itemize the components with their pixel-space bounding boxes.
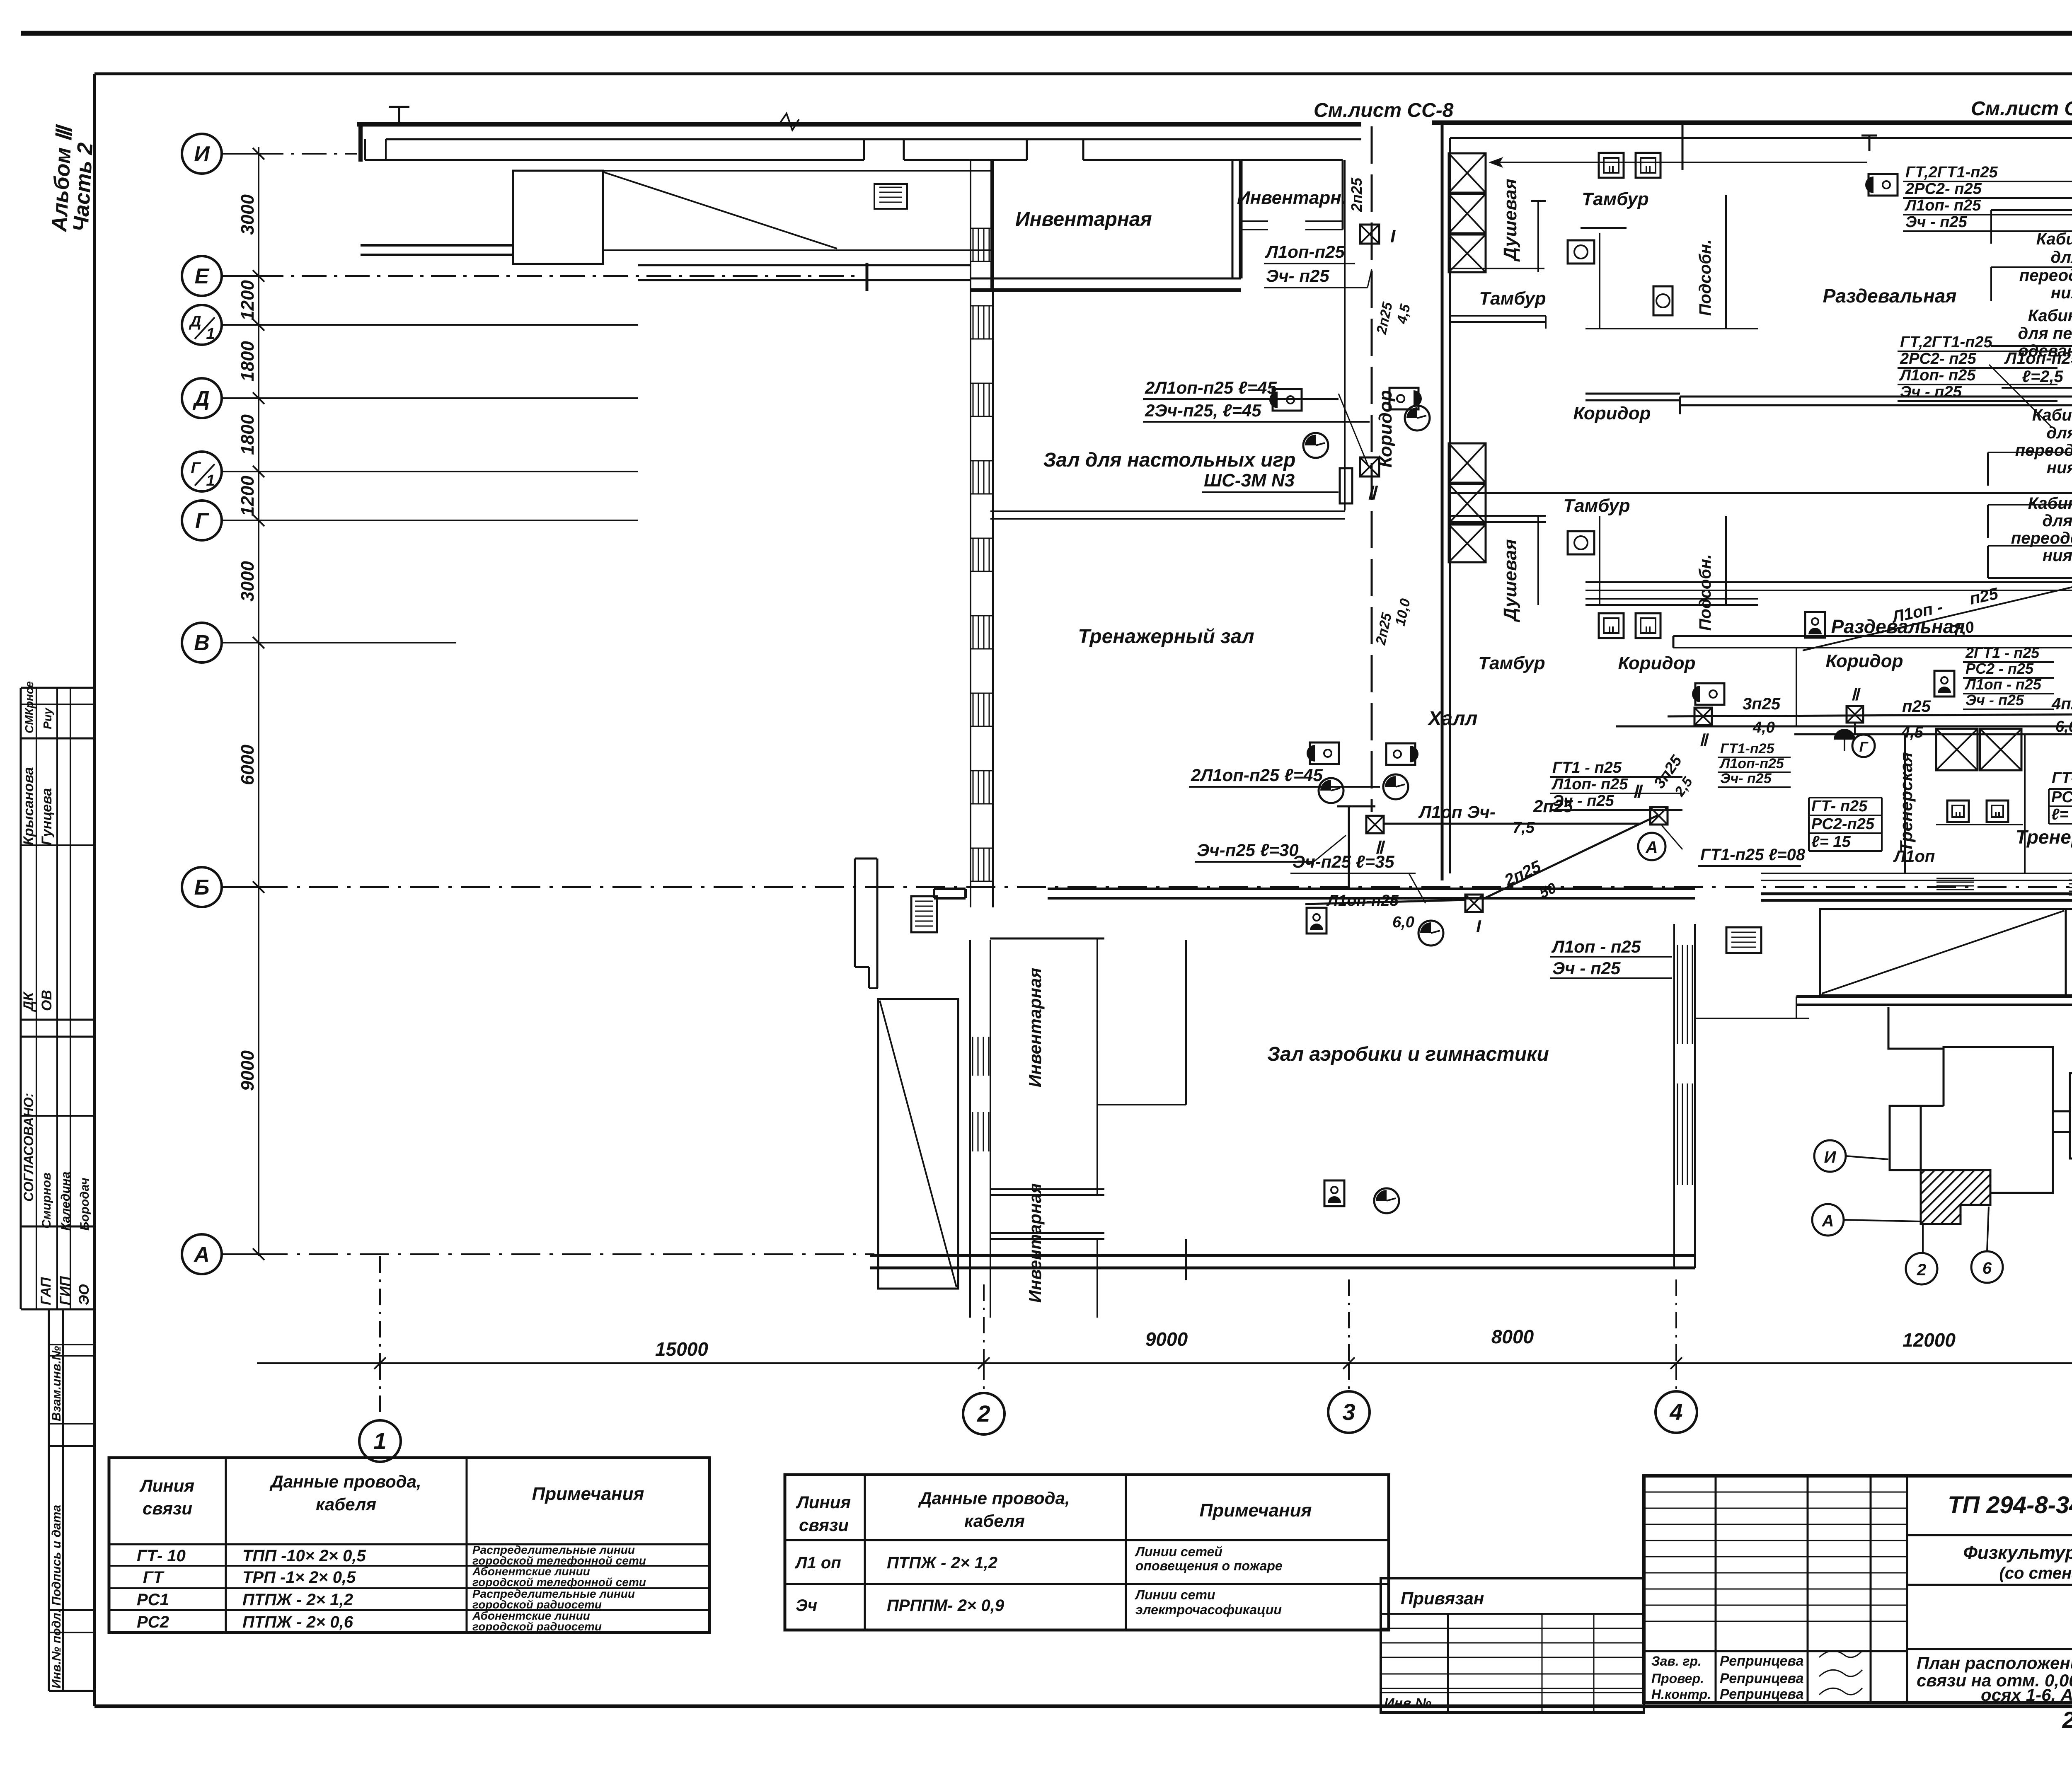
svg-text:Линия: Линия xyxy=(139,1476,194,1495)
svg-text:ПТПЖ - 2× 1,2: ПТПЖ - 2× 1,2 xyxy=(887,1554,997,1572)
svg-text:2Л1оп-п25 ℓ=45: 2Л1оп-п25 ℓ=45 xyxy=(1191,765,1323,785)
top-left wall extension segments xyxy=(638,264,971,266)
window hatch east xyxy=(1677,945,1678,1044)
svg-text:1: 1 xyxy=(206,472,215,489)
hatched window symbol lower-left xyxy=(911,896,937,932)
svg-text:Инвентарн.: Инвентарн. xyxy=(1237,188,1346,208)
axis circle 2 xyxy=(963,1393,1005,1434)
svg-text:Л1оп-п25: Л1оп-п25 xyxy=(1719,756,1784,771)
speaker corridor2 mid xyxy=(1934,671,1954,697)
svg-text:2РС2- п25: 2РС2- п25 xyxy=(1900,350,1977,368)
svg-text:ГТ1 - п25: ГТ1 - п25 xyxy=(1552,759,1622,776)
svg-text:Коридор: Коридор xyxy=(1826,651,1903,671)
svg-text:Эч- п25: Эч- п25 xyxy=(1266,266,1329,285)
sheet top border line xyxy=(21,31,2072,36)
window hatch xyxy=(973,306,974,339)
svg-text:Линии сети: Линии сети xyxy=(1135,1587,1215,1602)
svg-text:ℓ= 15: ℓ= 15 xyxy=(2051,806,2072,823)
axis circle 1 xyxy=(359,1420,401,1462)
axis circle 3 xyxy=(1328,1391,1370,1433)
title block left grid xyxy=(1715,1476,1717,1703)
svg-text:Эч - п25: Эч - п25 xyxy=(1905,213,1968,231)
axis circle 4 xyxy=(1656,1391,1697,1433)
svg-text:Репринцева: Репринцева xyxy=(1720,1686,1804,1702)
speaker at corridor2 left xyxy=(1695,683,1724,705)
svg-text:ПРППМ- 2× 0,9: ПРППМ- 2× 0,9 xyxy=(887,1596,1005,1615)
svg-text:План расположения сетей: План расположения сетей xyxy=(1917,1653,2072,1673)
svg-text:Душевая: Душевая xyxy=(1500,539,1520,622)
svg-text:Физкультурно-оздоровительный: Физкультурно-оздоровительный центр xyxy=(1963,1543,2072,1563)
svg-text:Кабина: Кабина xyxy=(2028,307,2072,325)
cable junction box I top xyxy=(1360,225,1379,244)
left stamp verticals xyxy=(36,688,37,1309)
svg-text:городской телефонной сети: городской телефонной сети xyxy=(472,1576,646,1589)
speaker left upper xyxy=(1273,389,1302,411)
right building left wall xyxy=(1441,123,1444,880)
svg-text:для: для xyxy=(2050,248,2072,266)
svg-text:В: В xyxy=(194,631,210,655)
svg-text:Смирнов: Смирнов xyxy=(40,1173,53,1229)
svg-text:4,0: 4,0 xyxy=(1752,719,1775,736)
X shaft boxes top xyxy=(1449,153,1486,193)
left stamp lower strip xyxy=(48,1309,50,1691)
svg-text:Д: Д xyxy=(192,387,210,411)
svg-text:Эч-п25 ℓ=35: Эч-п25 ℓ=35 xyxy=(1293,852,1394,871)
svg-text:1: 1 xyxy=(206,325,215,343)
svg-text:2п25: 2п25 xyxy=(1372,611,1395,647)
T-wall and box II mid2 xyxy=(1337,805,1375,808)
window hatch xyxy=(973,461,974,494)
svg-text:ℓ= 15: ℓ= 15 xyxy=(1811,833,1851,851)
clock hall xyxy=(1418,921,1443,946)
svg-text:ПТПЖ - 2× 1,2: ПТПЖ - 2× 1,2 xyxy=(242,1591,353,1609)
svg-text:Данные провода,: Данные провода, xyxy=(918,1488,1070,1508)
svg-text:И: И xyxy=(1824,1148,1837,1166)
window hatch east xyxy=(1677,1083,1678,1185)
key plan hatch lines xyxy=(1871,1170,2054,1224)
left stamp column outer xyxy=(20,688,22,1309)
svg-text:Ⅱ: Ⅱ xyxy=(1699,731,1709,750)
svg-text:РС2-п25: РС2-п25 xyxy=(1811,815,1875,833)
ramp rect with diagonal bottom right xyxy=(1820,909,2066,995)
svg-text:ОВ: ОВ xyxy=(39,990,55,1011)
wall segment lower tambur to cabins xyxy=(1585,581,2072,583)
vertical speaker hall xyxy=(1307,908,1326,934)
Тренерская X shafts xyxy=(1936,729,1978,770)
wall segment y614 xyxy=(361,244,513,247)
cable corridor2 horizontal xyxy=(1668,714,2072,716)
svg-text:ГТ- 10: ГТ- 10 xyxy=(137,1547,186,1565)
svg-text:Л1оп- п25: Л1оп- п25 xyxy=(1551,776,1628,793)
axis circle Г xyxy=(182,501,222,540)
svg-text:для пере-: для пере- xyxy=(2018,324,2072,343)
svg-text:6000: 6000 xyxy=(237,745,258,785)
cluster above hall: speakers xyxy=(1310,742,1339,764)
svg-text:Тренерская: Тренерская xyxy=(2016,826,2072,848)
cable along hall bottom xyxy=(1305,900,1465,904)
drawing frame xyxy=(94,73,2072,75)
window hatch lower xyxy=(972,1112,973,1151)
svg-text:Л1оп- п25: Л1оп- п25 xyxy=(1899,367,1976,384)
svg-text:Инв.№: Инв.№ xyxy=(1384,1695,1431,1711)
diagonal cable 2n25 50 xyxy=(1483,815,1658,899)
window hatch xyxy=(973,228,974,261)
Зал настольных игр bottom wall xyxy=(990,510,1345,512)
svg-text:ТРП -1× 2× 0,5: ТРП -1× 2× 0,5 xyxy=(242,1568,356,1587)
svg-text:СОГЛАСОВАНО:: СОГЛАСОВАНО: xyxy=(21,1093,36,1202)
left building top exterior wall xyxy=(357,122,1361,127)
svg-text:Раздевальная: Раздевальная xyxy=(1823,285,1957,307)
Зал аэробики east wall with windows xyxy=(1673,924,1675,1268)
svg-text:ПТПЖ - 2× 0,6: ПТПЖ - 2× 0,6 xyxy=(242,1613,353,1631)
svg-text:электрочасофикации: электрочасофикации xyxy=(1135,1602,1282,1617)
key plan axis А circle xyxy=(1812,1204,1844,1236)
leader to box II xyxy=(1339,394,1368,464)
svg-text:Б: Б xyxy=(194,875,210,900)
corridor bottom wall y1190 xyxy=(1450,492,2072,494)
Тренерская partitions xyxy=(1904,734,1906,874)
bottom wall right block xyxy=(1796,995,2072,998)
Душевая partition upper xyxy=(1537,201,1539,272)
cable run right from box II xyxy=(1384,823,1641,825)
stair rect with diagonal lower-left xyxy=(878,999,958,1289)
svg-text:4,5: 4,5 xyxy=(1901,724,1924,741)
WC fixtures upper xyxy=(1599,153,1624,178)
speaker right upper xyxy=(1389,388,1418,409)
svg-text:Линия: Линия xyxy=(796,1492,851,1512)
clock at A wall xyxy=(1374,1188,1399,1213)
svg-text:ГТ- п25: ГТ- п25 xyxy=(1811,798,1868,815)
svg-text:городской радиосети: городской радиосети xyxy=(472,1620,602,1633)
svg-text:Кабина: Кабина xyxy=(2028,494,2072,513)
stub wall x4060 xyxy=(1682,123,1684,170)
svg-text:Эч - п25: Эч - п25 xyxy=(1900,383,1962,401)
svg-text:Подпись и дата: Подпись и дата xyxy=(50,1505,63,1606)
svg-text:Ⅱ: Ⅱ xyxy=(1367,483,1378,503)
svg-text:Г: Г xyxy=(191,460,201,477)
svg-text:Данные провода,: Данные провода, xyxy=(269,1472,421,1491)
key plan axis 2 circle xyxy=(1906,1253,1937,1284)
axis circle Б xyxy=(182,867,222,907)
Инвентарн small room walls xyxy=(1342,160,1344,230)
svg-text:6: 6 xyxy=(1982,1259,1992,1277)
lower Тамбур-Душевая group xyxy=(1449,443,1486,483)
svg-text:1800: 1800 xyxy=(237,414,258,455)
svg-text:Л1оп - п25: Л1оп - п25 xyxy=(1964,676,2042,693)
svg-text:Инвентарная: Инвентарная xyxy=(1015,208,1152,230)
svg-text:Л1оп- п25: Л1оп- п25 xyxy=(1904,197,1981,214)
svg-text:А: А xyxy=(1822,1212,1834,1230)
key plan axis 6 circle xyxy=(1971,1251,2003,1283)
svg-text:Е: Е xyxy=(195,264,210,288)
svg-text:Зал аэробики и гимнастики: Зал аэробики и гимнастики xyxy=(1267,1043,1549,1065)
svg-text:2ГТ1 - п25: 2ГТ1 - п25 xyxy=(1965,644,2040,661)
svg-text:Репринцева: Репринцева xyxy=(1720,1653,1804,1669)
window hatch xyxy=(973,538,974,571)
cluster above hall: clocks xyxy=(1319,778,1343,803)
svg-text:оповещения о пожаре: оповещения о пожаре xyxy=(1135,1558,1283,1573)
svg-text:кабеля: кабеля xyxy=(964,1511,1025,1531)
axis circle Г/1 xyxy=(182,452,222,491)
axis circle А xyxy=(182,1234,222,1274)
hatched window symbol upper xyxy=(874,184,907,209)
svg-text:Тамбур: Тамбур xyxy=(1563,496,1630,516)
svg-text:ния: ния xyxy=(2047,459,2072,477)
svg-text:2: 2 xyxy=(977,1400,990,1427)
svg-text:25343-05: 25343-05 xyxy=(2062,1707,2072,1733)
axis circle Е xyxy=(182,256,222,296)
svg-text:ШС-3М N3: ШС-3М N3 xyxy=(1204,470,1295,491)
svg-text:кабеля: кабеля xyxy=(316,1495,376,1514)
exterior band wall y2165 xyxy=(1761,892,2072,895)
svg-text:Кабина: Кабина xyxy=(2036,230,2072,248)
svg-text:1: 1 xyxy=(373,1428,386,1454)
hatched window symbol right of hall xyxy=(1726,927,1761,953)
svg-text:ГИП: ГИП xyxy=(57,1276,73,1305)
title block signatures squiggle xyxy=(1819,1651,1862,1657)
key plan hatched block xyxy=(1921,1170,1990,1224)
svg-text:ТПП -10× 2× 0,5: ТПП -10× 2× 0,5 xyxy=(242,1547,366,1565)
svg-text:Халл: Халл xyxy=(1427,708,1477,730)
legend table 2 xyxy=(785,1475,1389,1630)
svg-text:12000: 12000 xyxy=(1903,1329,1956,1351)
svg-text:для: для xyxy=(2042,512,2072,530)
svg-text:См.лист СС-8: См.лист СС-8 xyxy=(1314,99,1454,121)
svg-text:Эч: Эч xyxy=(796,1596,817,1615)
svg-text:связи: связи xyxy=(799,1515,849,1535)
horizontal dimension line xyxy=(257,1362,2072,1364)
svg-text:Душевая: Душевая xyxy=(1500,179,1520,262)
window hatch lower xyxy=(972,1037,973,1076)
svg-text:2п25: 2п25 xyxy=(1373,300,1396,336)
svg-text:Тренерская: Тренерская xyxy=(1896,752,1916,852)
svg-text:ℓ=2,5: ℓ=2,5 xyxy=(2022,368,2063,386)
cable diagonal Л1оп 70 xyxy=(1803,582,2072,651)
svg-text:15000: 15000 xyxy=(655,1338,708,1360)
Инвентарная room walls xyxy=(990,160,992,290)
Б axis wall under Тренажерный зал xyxy=(1048,888,1695,890)
Тренерская bottom wall xyxy=(1761,873,2072,874)
svg-text:Эч - п25: Эч - п25 xyxy=(1552,792,1615,810)
lower-left west wall with windows xyxy=(969,940,971,1318)
key plan right part xyxy=(2070,1073,2072,1170)
wall pier at Б axis left xyxy=(934,888,966,890)
lower-left block walls xyxy=(854,859,856,967)
Г symbol circle 1 xyxy=(1852,735,1875,757)
axis circle Д/1 xyxy=(182,305,222,345)
key plan axis И circle xyxy=(1814,1140,1846,1172)
WC partitions upper xyxy=(1599,233,1600,329)
svg-text:переодева-: переодева- xyxy=(2011,529,2072,547)
cable junction box II mid xyxy=(1360,457,1379,476)
svg-text:РС2 - п25: РС2 - п25 xyxy=(1965,660,2034,677)
svg-text:ГТ,2ГТ1-п25: ГТ,2ГТ1-п25 xyxy=(1905,164,1998,181)
threshold hatch 1 xyxy=(1936,878,1974,879)
corridor2 separator x4335 xyxy=(1796,648,1797,727)
svg-text:3п25: 3п25 xyxy=(1743,695,1781,713)
left window-hatch wall xyxy=(970,160,971,907)
svg-text:2РС2- п25: 2РС2- п25 xyxy=(1905,180,1982,198)
Подсобн partition xyxy=(1725,195,1727,329)
leader from mid stack to cabins xyxy=(1989,365,2051,427)
box I hall xyxy=(1465,895,1483,912)
svg-text:ГТ- п25: ГТ- п25 xyxy=(2052,769,2072,787)
axis tick on left top wall xyxy=(398,107,400,124)
top wall zigzag break xyxy=(779,114,799,130)
box II corridor2 mid xyxy=(1847,706,1863,723)
svg-text:2п25: 2п25 xyxy=(1348,177,1365,212)
svg-text:Риу: Риу xyxy=(41,707,54,729)
svg-text:ЭО: ЭО xyxy=(76,1284,92,1305)
wall band below top xyxy=(365,159,864,161)
svg-text:Каледина: Каледина xyxy=(59,1172,73,1231)
cable and speaker at A wall xyxy=(1324,1180,1344,1206)
svg-text:Г: Г xyxy=(195,509,209,533)
svg-text:6,0: 6,0 xyxy=(1392,914,1414,931)
svg-text:переодева-: переодева- xyxy=(2015,441,2072,460)
svg-text:ГТ: ГТ xyxy=(143,1568,165,1587)
window hatch xyxy=(973,771,974,804)
svg-text:А: А xyxy=(1646,838,1658,856)
svg-text:8000: 8000 xyxy=(1491,1326,1534,1347)
svg-text:РС2- п25: РС2- п25 xyxy=(2051,788,2072,806)
svg-text:1800: 1800 xyxy=(237,341,258,382)
svg-text:Коридор: Коридор xyxy=(1375,390,1396,468)
box II hall right with A circle xyxy=(1650,807,1668,825)
svg-text:ТП 294-8-34.92: ТП 294-8-34.92 xyxy=(1948,1492,2072,1519)
svg-text:Л1оп Эч-: Л1оп Эч- xyxy=(1418,802,1496,822)
box II corridor2 left xyxy=(1694,708,1712,725)
axis 2 dash line up to plan xyxy=(983,1284,985,1363)
svg-text:2п25: 2п25 xyxy=(1501,857,1544,890)
svg-text:Взам.инв.№: Взам.инв.№ xyxy=(50,1346,63,1421)
svg-text:Г: Г xyxy=(1859,739,1869,755)
svg-text:9000: 9000 xyxy=(237,1050,258,1091)
svg-text:I: I xyxy=(1390,226,1396,247)
axis circle И xyxy=(182,134,222,174)
svg-text:Эч-п25 ℓ=30: Эч-п25 ℓ=30 xyxy=(1197,840,1299,860)
long tribune rect with diagonal xyxy=(603,170,990,172)
svg-text:1200: 1200 xyxy=(237,280,258,321)
svg-text:I: I xyxy=(1476,917,1481,936)
svg-text:Репринцева: Репринцева xyxy=(1720,1671,1804,1686)
stack ГТ2ГТ1 top right with speaker xyxy=(1869,174,1898,196)
svg-text:осях 1-6, А-И: осях 1-6, А-И xyxy=(1981,1685,2072,1705)
svg-text:ГАП: ГАП xyxy=(38,1277,54,1305)
clock symbol right of corridor xyxy=(1405,406,1430,430)
svg-text:Ⅱ: Ⅱ xyxy=(1851,686,1861,704)
svg-text:4,5: 4,5 xyxy=(1394,302,1414,326)
svg-text:ГТ,2ГТ1-п25: ГТ,2ГТ1-п25 xyxy=(1900,334,1992,351)
svg-text:РС2: РС2 xyxy=(137,1613,169,1631)
legend table 1 xyxy=(109,1458,709,1632)
svg-text:Подсобн.: Подсобн. xyxy=(1696,554,1714,631)
svg-text:6,0: 6,0 xyxy=(2055,718,2072,735)
svg-text:Зав. гр.: Зав. гр. xyxy=(1651,1654,1702,1669)
svg-text:Подсобн.: Подсобн. xyxy=(1696,239,1714,316)
svg-text:ния: ния xyxy=(2051,284,2072,302)
store room inner partition xyxy=(1185,940,1187,1105)
svg-text:Гунцева: Гунцева xyxy=(39,788,55,845)
svg-text:7,5: 7,5 xyxy=(1513,819,1535,837)
svg-text:Л1оп-п25: Л1оп-п25 xyxy=(1326,892,1399,909)
svg-text:Инв.№ подл.: Инв.№ подл. xyxy=(50,1609,63,1688)
window hatch xyxy=(973,616,974,649)
svg-text:9000: 9000 xyxy=(1145,1328,1188,1350)
cable run under top wall right part xyxy=(1490,162,1867,163)
corridor2 top wall y1545 xyxy=(1673,635,2072,637)
speaker lower coridor xyxy=(1805,612,1825,638)
svg-text:Примечания: Примечания xyxy=(532,1484,644,1504)
key plan main outline xyxy=(1888,1007,2053,1193)
corridor top wall y960 xyxy=(1585,393,1680,395)
ШС-3М N3 box xyxy=(1340,468,1352,503)
svg-text:Ⅱ: Ⅱ xyxy=(1633,782,1644,801)
svg-text:п25: п25 xyxy=(1902,697,1931,716)
svg-text:Коридор: Коридор xyxy=(1573,403,1651,423)
svg-text:СМКрнсе: СМКрнсе xyxy=(23,681,36,733)
svg-text:Н.контр.: Н.контр. xyxy=(1651,1687,1711,1702)
window hatch xyxy=(973,693,974,726)
svg-text:переодева-: переодева- xyxy=(2019,266,2072,285)
svg-text:Линии сетей: Линии сетей xyxy=(1135,1544,1222,1559)
svg-text:РС1: РС1 xyxy=(137,1591,169,1609)
svg-text:Тренажерный зал: Тренажерный зал xyxy=(1078,626,1254,648)
axis circle Д xyxy=(182,378,222,418)
svg-text:А: А xyxy=(193,1243,210,1267)
cabins right column lower xyxy=(1988,545,2072,547)
svg-text:ДК: ДК xyxy=(21,991,36,1012)
svg-text:Л1оп: Л1оп xyxy=(1893,847,1935,866)
svg-text:Инвентарная: Инвентарная xyxy=(1025,968,1045,1087)
cabins right column mid xyxy=(1988,452,2072,453)
svg-text:Примечания: Примечания xyxy=(1200,1500,1312,1521)
key plan left notch xyxy=(1890,1105,1944,1107)
left stamp mid dividers xyxy=(49,1344,94,1345)
svg-text:Зал для настольных игр: Зал для настольных игр xyxy=(1043,449,1296,471)
corridor left wall upper xyxy=(1344,160,1346,510)
svg-text:Л1оп-п25: Л1оп-п25 xyxy=(1265,242,1345,261)
axis circle В xyxy=(182,623,222,663)
clock symbol left of corridor xyxy=(1303,433,1328,458)
svg-text:См.лист СС-8: См.лист СС-8 xyxy=(1971,98,2072,120)
svg-text:Провер.: Провер. xyxy=(1651,1671,1704,1686)
svg-text:ГТ1-п25: ГТ1-п25 xyxy=(1720,741,1775,757)
А axis bottom wall xyxy=(870,1254,1695,1257)
window hatch xyxy=(973,848,974,881)
window rect with diagonal xyxy=(513,171,603,264)
svg-text:Коридор: Коридор xyxy=(1618,653,1696,673)
Тренерская WC fixtures xyxy=(1947,801,1969,822)
svg-text:Д: Д xyxy=(189,313,201,330)
title block outer xyxy=(1644,1476,2072,1703)
axis dash-dot lines xyxy=(259,153,357,155)
svg-text:2Л1оп-п25 ℓ=45: 2Л1оп-п25 ℓ=45 xyxy=(1145,378,1277,397)
Привязан table xyxy=(1381,1578,1644,1712)
svg-text:1200: 1200 xyxy=(237,476,258,516)
threshold hatch 2 xyxy=(2069,880,2072,881)
cabins right column upper xyxy=(1991,209,2072,211)
vertical dimension line xyxy=(258,147,259,1256)
svg-text:Кабина: Кабина xyxy=(2032,406,2072,424)
svg-text:4: 4 xyxy=(1669,1399,1682,1425)
Инвентарная store room 1 walls xyxy=(990,938,1104,940)
svg-text:3000: 3000 xyxy=(237,194,258,235)
svg-text:ГТ1-п25 ℓ=08: ГТ1-п25 ℓ=08 xyxy=(1700,846,1806,864)
svg-text:Крысанова: Крысанова xyxy=(21,767,36,845)
svg-text:3000: 3000 xyxy=(237,561,258,602)
svg-text:Л1оп - п25: Л1оп - п25 xyxy=(1551,937,1641,956)
